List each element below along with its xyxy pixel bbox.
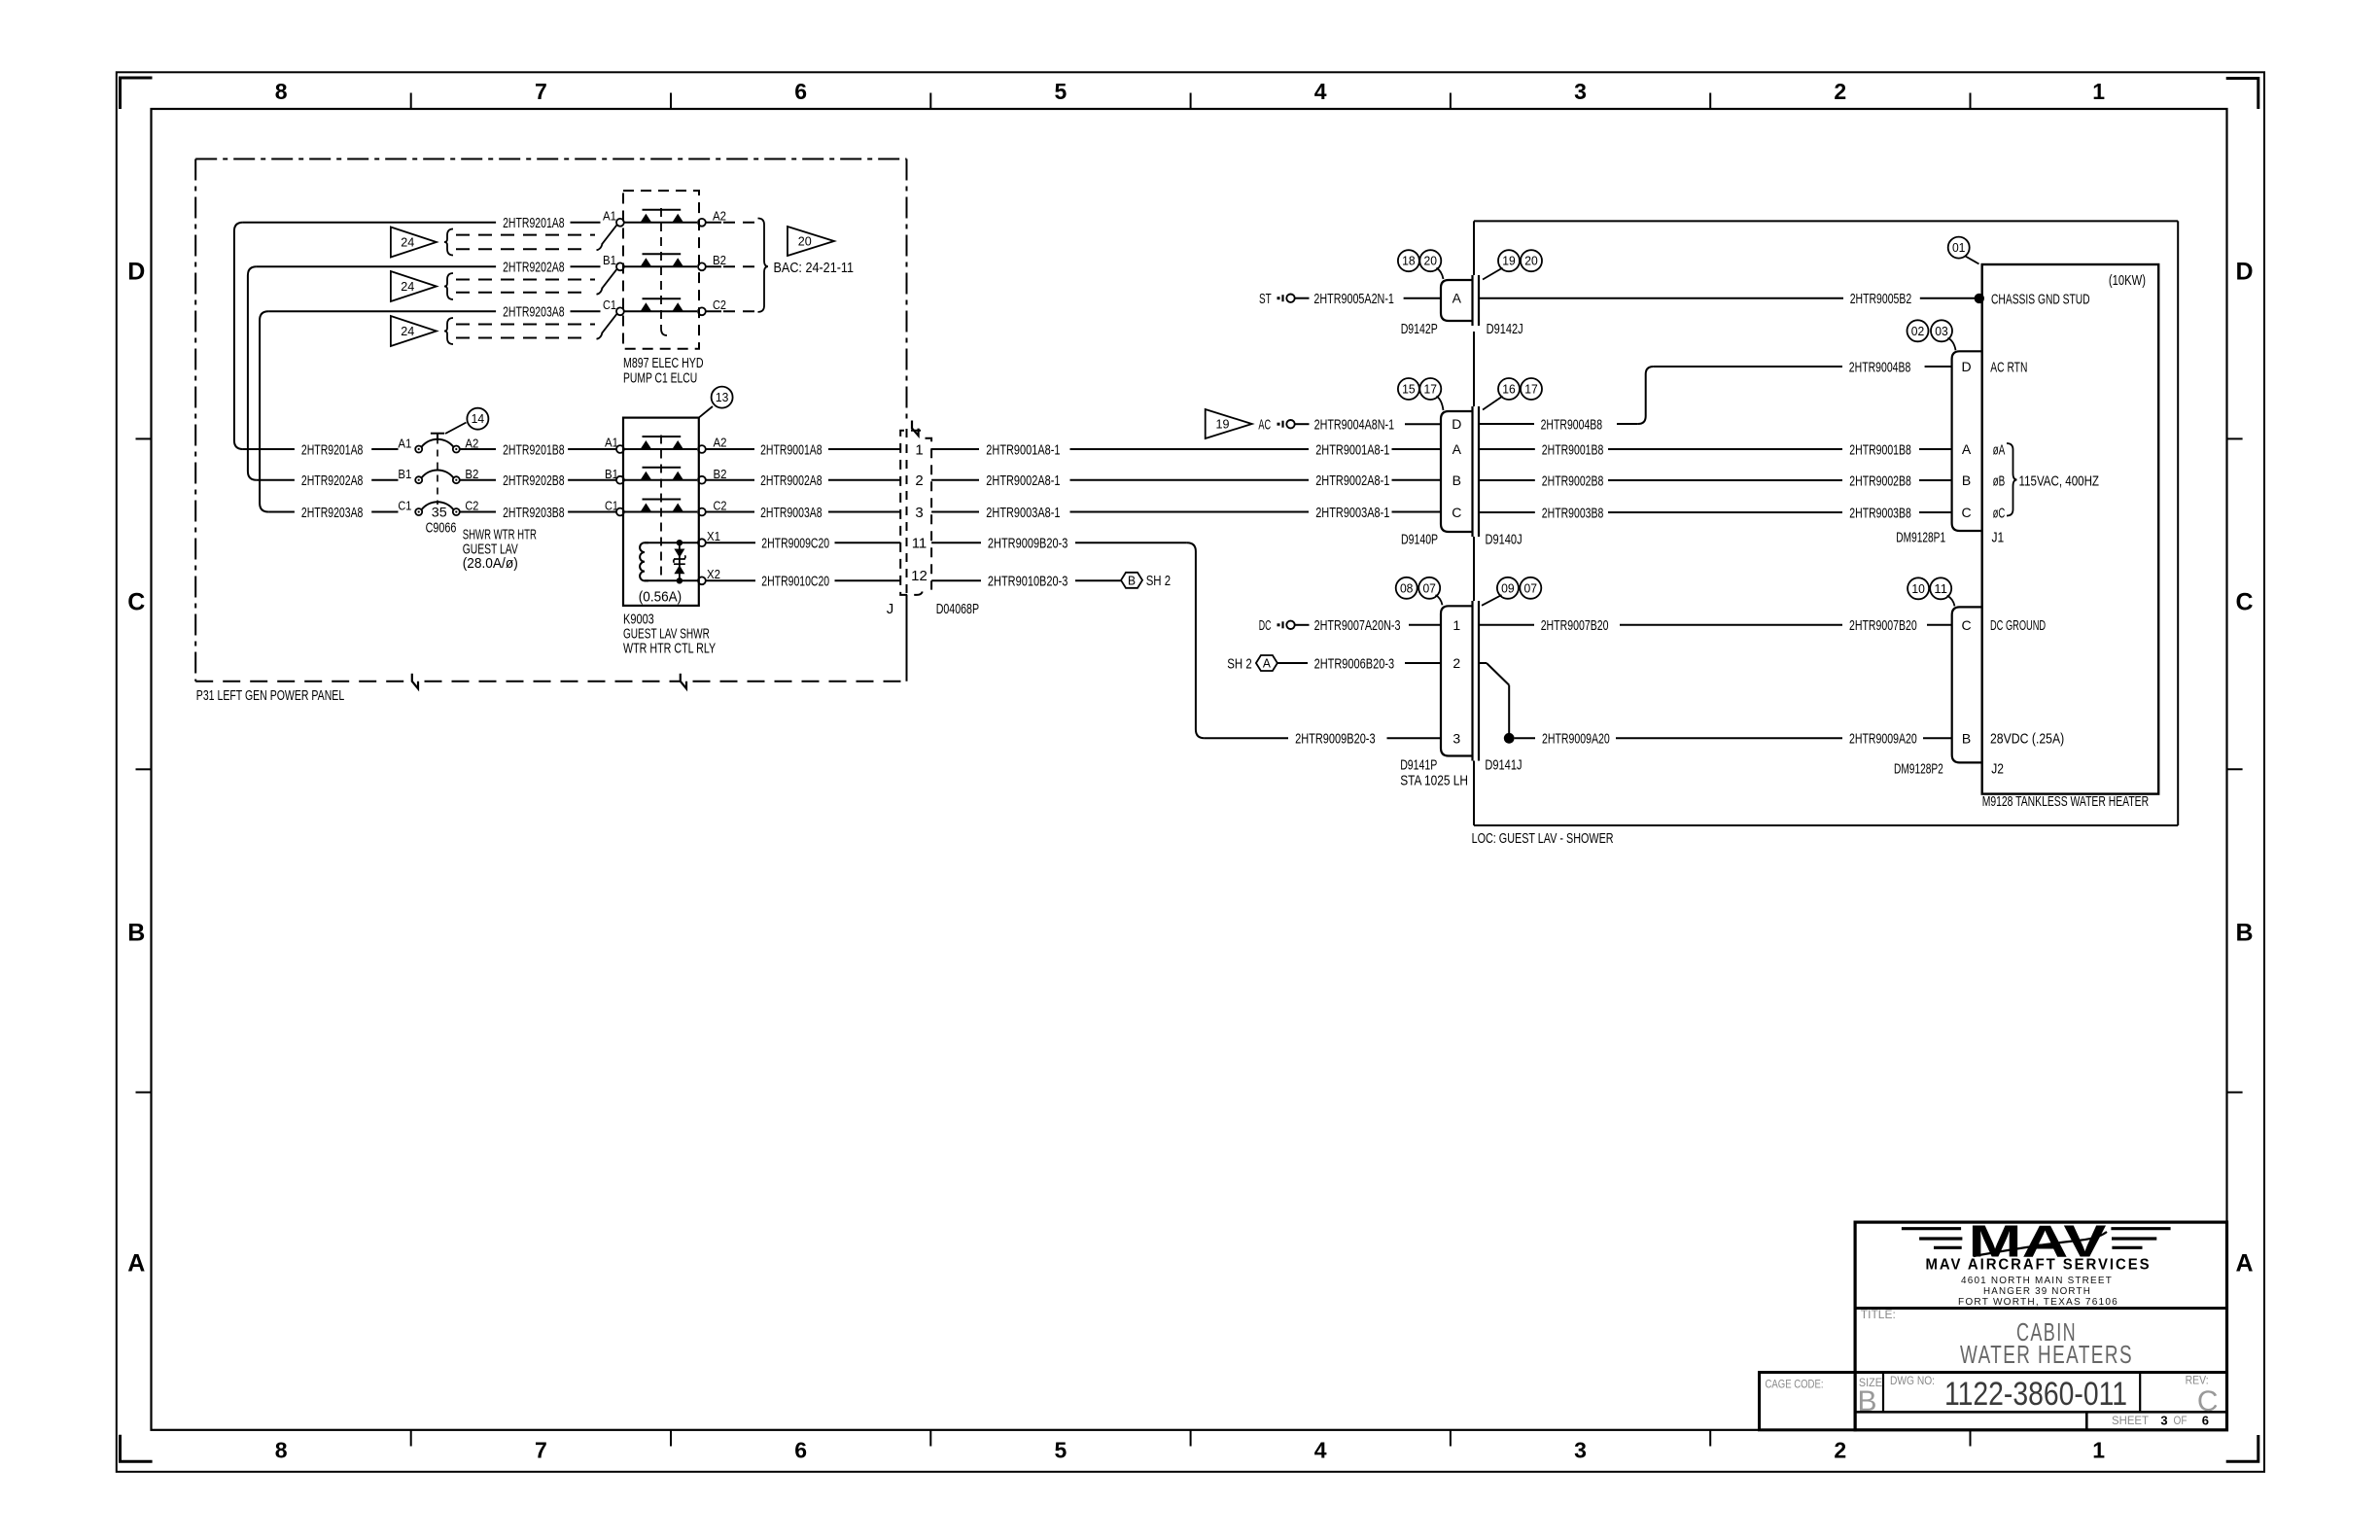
svg-text:øC: øC [1993,505,2006,521]
svg-text:3: 3 [1574,79,1587,104]
wire 2HTR9202A8 (feeder loop) [248,260,601,489]
svg-text:28VDC (.25A): 28VDC (.25A) [1990,731,2064,748]
wire 2HTR9201B8 [460,441,616,458]
wire 2HTR9203A8 (feeder loop) [260,304,600,521]
wire 2HTR9201A8 (feeder loop) [234,215,601,458]
svg-text:2HTR9002B8: 2HTR9002B8 [1849,472,1911,489]
svg-text:B: B [1857,1385,1876,1417]
svg-text:2: 2 [915,472,923,489]
svg-text:8: 8 [275,1437,288,1462]
flag 24 (B phase control) [391,271,595,301]
svg-text:07: 07 [1422,581,1436,595]
svg-text:J: J [887,601,894,617]
svg-text:19: 19 [1216,418,1230,432]
svg-text:DM9128P1: DM9128P1 [1896,529,1945,545]
svg-text:02: 02 [1911,325,1925,338]
svg-text:7: 7 [535,79,547,104]
svg-text:D: D [1961,359,1971,374]
svg-text:PUMP C1 ELCU: PUMP C1 ELCU [623,370,697,387]
flags 18 20 (D9142P) [1398,250,1444,279]
svg-text:SH 2: SH 2 [1146,573,1171,589]
svg-text:16: 16 [1502,383,1516,397]
svg-text:HANGER 39 NORTH: HANGER 39 NORTH [1983,1286,2091,1297]
svg-text:01: 01 [1952,241,1966,255]
svg-text:12: 12 [911,568,927,584]
svg-text:WTR HTR CTL RLY: WTR HTR CTL RLY [623,640,716,656]
svg-text:2HTR9201B8: 2HTR9201B8 [503,441,565,458]
svg-text:B: B [1962,472,1971,488]
svg-text:A2: A2 [713,209,726,224]
svg-text:D: D [127,259,145,286]
svg-text:1122-3860-011: 1122-3860-011 [1944,1376,2127,1413]
svg-text:2HTR9001B8: 2HTR9001B8 [1542,441,1604,458]
wire 2HTR9003A8 [706,505,900,521]
svg-text:3: 3 [915,505,923,521]
terminal DC and wire 2HTR9007A20N-3 [1259,617,1441,634]
wire 2HTR9009B20-3 (pin 11 to D9141 pin 3) [931,536,1441,748]
svg-text:A: A [1263,656,1271,671]
wire 2HTR9009C20 [706,536,900,552]
svg-text:OF: OF [2174,1414,2187,1427]
svg-text:D9142P: D9142P [1401,321,1438,337]
svg-text:2HTR9004A8N-1: 2HTR9004A8N-1 [1314,417,1395,434]
svg-text:2HTR9007B20: 2HTR9007B20 [1541,617,1609,634]
LOC: GUEST LAV - SHOWER enclosure [1472,221,2179,846]
svg-text:2HTR9007B20: 2HTR9007B20 [1849,617,1917,634]
svg-text:17: 17 [1524,383,1538,397]
flag 01 (chassis stud) [1948,237,1979,264]
svg-text:C1: C1 [398,499,411,513]
svg-text:D9140J: D9140J [1486,531,1522,547]
off-sheet ref SH 2 flag A and wire 2HTR9006B20-3 [1227,655,1441,672]
connector D9142P / D9142J [1401,275,1523,337]
svg-text:C: C [1961,617,1971,633]
svg-text:2HTR9201A8: 2HTR9201A8 [503,215,565,231]
svg-text:2HTR9009A20: 2HTR9009A20 [1849,731,1917,748]
svg-text:07: 07 [1524,581,1538,595]
wire 2HTR9010C20 [706,574,900,590]
svg-text:X2: X2 [707,567,720,581]
svg-text:J2: J2 [1991,761,2004,778]
wire 2HTR9007B20 (DC) [1479,617,1952,634]
svg-text:17: 17 [1424,383,1438,397]
flag 19 triangle, AC terminal and wire 2HTR9004A8N-1 [1206,409,1441,438]
svg-text:M9128 TANKLESS WATER HEATER: M9128 TANKLESS WATER HEATER [1982,793,2150,810]
break symbol on panel right edge [912,421,919,437]
svg-text:2HTR9003A8: 2HTR9003A8 [760,505,822,521]
svg-text:C: C [1452,505,1461,520]
svg-text:CAGE CODE:: CAGE CODE: [1766,1377,1824,1390]
svg-text:2HTR9009B20-3: 2HTR9009B20-3 [988,536,1068,552]
svg-text:X1: X1 [707,529,720,543]
flags 19 20 (D9142J) [1483,250,1542,279]
break symbol on panel bottom edge (left) [412,674,418,689]
svg-text:8: 8 [275,79,288,104]
svg-text:2HTR9005A2N-1: 2HTR9005A2N-1 [1313,291,1394,307]
svg-text:B1: B1 [605,467,618,481]
svg-text:2: 2 [1834,79,1846,104]
svg-text:1: 1 [1452,617,1460,633]
svg-text:2HTR9007A20N-3: 2HTR9007A20N-3 [1314,617,1401,634]
P31 LEFT GEN POWER PANEL boundary [195,159,906,705]
svg-text:D9140P: D9140P [1401,531,1438,547]
MAV Aircraft Services logo [1902,1216,2171,1309]
svg-text:B: B [1962,730,1971,746]
svg-text:19: 19 [1502,255,1516,268]
svg-text:C2: C2 [465,499,478,513]
svg-text:6: 6 [2202,1414,2209,1428]
svg-text:03: 03 [1935,325,1948,338]
svg-text:B1: B1 [398,467,411,481]
wire 2HTR9003A8-1 [931,505,1441,521]
svg-text:3: 3 [2160,1414,2167,1428]
terminal ST and wire 2HTR9005A2N-1 [1259,291,1441,307]
relay K9003 GUEST LAV SHWR WTR HTR CTL RLY [605,418,727,657]
svg-text:35: 35 [432,505,447,520]
svg-text:DM9128P2: DM9128P2 [1894,761,1943,778]
wire 2HTR9202B8 [460,472,616,489]
svg-text:2HTR9002B8: 2HTR9002B8 [1542,472,1604,489]
wire 2HTR9203B8 [460,505,616,521]
svg-text:TITLE:: TITLE: [1861,1308,1896,1321]
svg-text:2HTR9003B8: 2HTR9003B8 [1542,505,1604,521]
wire 2HTR9001A8 [706,441,900,458]
svg-text:11: 11 [1934,582,1947,596]
svg-text:2HTR9009B20-3: 2HTR9009B20-3 [1295,731,1376,748]
svg-text:2HTR9203B8: 2HTR9203B8 [503,505,565,521]
svg-text:20: 20 [1524,255,1538,268]
svg-text:1: 1 [2092,79,2105,104]
svg-text:14: 14 [472,412,485,426]
svg-text:B1: B1 [603,253,616,267]
svg-text:LOC: GUEST LAV - SHOWER: LOC: GUEST LAV - SHOWER [1472,830,1614,847]
water heater M9128 box [1982,264,2159,810]
svg-text:øA: øA [1993,441,2006,458]
wire 2HTR9001B8 [1479,441,1952,458]
svg-text:AC RTN: AC RTN [1990,359,2027,375]
flag 20 with BAC: 24-21-11 reference [758,219,855,312]
svg-text:D04068P: D04068P [936,601,979,617]
svg-text:C1: C1 [605,499,618,513]
svg-text:2HTR9005B2: 2HTR9005B2 [1850,291,1912,307]
svg-text:2: 2 [1452,655,1460,671]
svg-text:STA 1025 LH: STA 1025 LH [1400,772,1468,788]
flag 13 [699,387,733,418]
svg-text:2HTR9002A8-1: 2HTR9002A8-1 [986,472,1060,489]
contactor M897 pin labels A1 B1 C1 [603,209,616,313]
flags 09 07 (D9141J) [1482,577,1541,606]
svg-text:C9066: C9066 [426,520,457,537]
svg-text:M897 ELEC HYD: M897 ELEC HYD [623,355,704,371]
svg-text:C2: C2 [713,297,726,312]
svg-text:2HTR9202A8: 2HTR9202A8 [503,260,565,276]
title block [1760,1222,2227,1430]
contactor M897 pin labels A2 B2 C2 with dashed leads [706,209,759,313]
circuit breaker C9066 35A 3-pole [398,434,537,572]
connector D04068P (J half and P half) [887,431,979,617]
svg-text:1: 1 [915,441,923,458]
svg-text:2HTR9201A8: 2HTR9201A8 [301,441,364,458]
wire 2HTR9009A20 with junction from D9141 pin 2 [1479,663,1952,748]
svg-text:2HTR9004B8: 2HTR9004B8 [1849,359,1911,375]
svg-text:2: 2 [1834,1437,1846,1462]
svg-text:D9141J: D9141J [1485,756,1522,773]
connector DM9128P2 [1894,607,1982,777]
svg-text:D9142J: D9142J [1487,321,1523,337]
svg-text:2HTR9009A20: 2HTR9009A20 [1542,731,1610,748]
svg-text:A2: A2 [714,436,727,450]
svg-text:2HTR9202B8: 2HTR9202B8 [503,472,565,489]
svg-text:A: A [1962,441,1972,457]
svg-text:20: 20 [1424,255,1438,268]
svg-text:13: 13 [716,391,729,404]
svg-text:C: C [2235,589,2253,616]
svg-text:20: 20 [798,235,812,249]
svg-text:J1: J1 [1992,529,2005,545]
svg-text:B: B [2235,920,2253,947]
svg-text:115VAC, 400HZ: 115VAC, 400HZ [2019,472,2100,489]
svg-text:4: 4 [1314,1437,1327,1462]
svg-text:D9141P: D9141P [1400,756,1437,773]
svg-text:FORT WORTH, TEXAS 76106: FORT WORTH, TEXAS 76106 [1958,1297,2118,1308]
svg-text:2HTR9010B20-3: 2HTR9010B20-3 [988,574,1068,590]
connector DM9128P1 [1896,351,1981,545]
wire 2HTR9002B8 [1479,472,1952,489]
svg-text:WATER HEATERS: WATER HEATERS [1960,1340,2133,1369]
svg-text:BAC: 24-21-11: BAC: 24-21-11 [774,260,855,276]
break symbol on panel bottom edge (right) [681,674,686,689]
svg-text:2HTR9001A8-1: 2HTR9001A8-1 [1315,441,1389,458]
svg-text:2HTR9202A8: 2HTR9202A8 [301,472,364,489]
flag 24 (A phase control) [391,227,595,258]
flags 08 07 (D9141P) [1396,577,1443,606]
wire 2HTR9003B8 [1479,505,1952,521]
svg-text:2HTR9001A8: 2HTR9001A8 [760,441,822,458]
svg-text:(10KW): (10KW) [2109,272,2146,289]
svg-text:DWG NO:: DWG NO: [1890,1374,1935,1387]
svg-text:24: 24 [401,236,414,250]
svg-text:11: 11 [912,536,927,552]
svg-text:6: 6 [794,1437,807,1462]
svg-text:5: 5 [1055,1437,1067,1462]
svg-text:2HTR9003A8-1: 2HTR9003A8-1 [986,505,1060,521]
svg-text:B: B [1452,472,1461,488]
svg-text:CHASSIS GND STUD: CHASSIS GND STUD [1991,291,2090,307]
svg-text:2HTR9010C20: 2HTR9010C20 [761,574,829,590]
svg-text:18: 18 [1402,255,1416,268]
svg-text:2HTR9006B20-3: 2HTR9006B20-3 [1314,655,1395,672]
flags 10 11 (DM9128P2) [1907,577,1954,606]
svg-text:2HTR9001B8: 2HTR9001B8 [1849,441,1911,458]
svg-text:2HTR9002A8: 2HTR9002A8 [760,472,822,489]
svg-text:A: A [1452,441,1462,457]
svg-text:DC GROUND: DC GROUND [1990,617,2046,634]
svg-text:2HTR9203A8: 2HTR9203A8 [301,505,364,521]
svg-text:øB: øB [1993,472,2006,489]
svg-text:10: 10 [1911,582,1925,596]
svg-text:B: B [127,920,145,947]
flags 15 17 (D9140P) [1398,378,1444,410]
wire 2HTR9010B20-3 to off-sheet flag B SH 2 [931,573,1171,590]
wire 2HTR9002A8-1 [931,472,1441,489]
svg-text:(0.56A): (0.56A) [639,589,682,606]
svg-text:C2: C2 [714,499,727,513]
contactor M897 ELEC HYD PUMP C1 ELCU [597,191,706,387]
svg-text:08: 08 [1400,581,1414,595]
svg-text:SHEET: SHEET [2112,1414,2150,1427]
svg-text:REV:: REV: [2186,1373,2209,1386]
wire 2HTR9005B2 to chassis gnd stud [1479,291,1984,307]
svg-text:C: C [127,589,145,616]
wire 2HTR9001A8-1 [931,441,1441,458]
svg-text:D: D [1452,416,1461,432]
wire 2HTR9002A8 [706,472,900,489]
svg-text:DC: DC [1259,617,1272,634]
flags 16 17 (D9140J) [1483,378,1542,410]
svg-text:7: 7 [535,1437,547,1462]
svg-text:5: 5 [1055,79,1067,104]
connector D9141P / D9141J at STA 1025 LH [1400,601,1522,788]
svg-text:B2: B2 [714,467,727,481]
svg-text:A: A [2235,1250,2253,1277]
svg-text:C: C [1961,505,1971,520]
wire 2HTR9004B8 (AC RTN) [1479,359,1952,433]
svg-text:3: 3 [1452,730,1460,746]
svg-text:AC: AC [1258,417,1271,434]
svg-text:2HTR9203A8: 2HTR9203A8 [503,304,565,321]
svg-text:B2: B2 [465,467,478,481]
svg-text:B2: B2 [713,253,726,267]
svg-text:SH 2: SH 2 [1227,655,1251,672]
svg-text:2HTR9003A8-1: 2HTR9003A8-1 [1315,505,1389,521]
svg-text:A: A [127,1250,145,1277]
svg-text:4601 NORTH MAIN STREET: 4601 NORTH MAIN STREET [1961,1276,2113,1286]
svg-text:B: B [1128,574,1136,588]
svg-text:3: 3 [1574,1437,1587,1462]
svg-text:1: 1 [2092,1437,2105,1462]
svg-text:6: 6 [794,79,807,104]
svg-text:15: 15 [1402,383,1416,397]
svg-text:C1: C1 [603,297,616,312]
svg-text:09: 09 [1501,581,1515,595]
svg-text:2HTR9009C20: 2HTR9009C20 [761,536,829,552]
svg-text:24: 24 [401,280,414,294]
flags 02 03 (DM9128P1) [1907,320,1956,350]
svg-text:2HTR9001A8-1: 2HTR9001A8-1 [986,441,1060,458]
svg-text:A1: A1 [398,436,411,450]
svg-text:2HTR9004B8: 2HTR9004B8 [1541,416,1603,433]
svg-text:A: A [1452,291,1462,306]
svg-text:2HTR9003B8: 2HTR9003B8 [1849,505,1911,521]
svg-text:P31 LEFT GEN POWER PANEL: P31 LEFT GEN POWER PANEL [196,687,344,704]
svg-text:4: 4 [1314,79,1327,104]
svg-text:MAV AIRCRAFT SERVICES: MAV AIRCRAFT SERVICES [1926,1257,2152,1274]
svg-text:24: 24 [401,325,414,338]
flag 14 [445,408,488,434]
svg-text:A1: A1 [605,436,618,450]
svg-text:2HTR9002A8-1: 2HTR9002A8-1 [1315,472,1389,489]
svg-text:(28.0A/ø): (28.0A/ø) [463,555,518,572]
svg-text:ST: ST [1259,291,1272,307]
connector D9140P / D9140J [1401,406,1522,547]
svg-text:D: D [2235,259,2253,286]
flag 24 (C phase control) [391,316,595,346]
svg-text:A1: A1 [603,209,616,224]
